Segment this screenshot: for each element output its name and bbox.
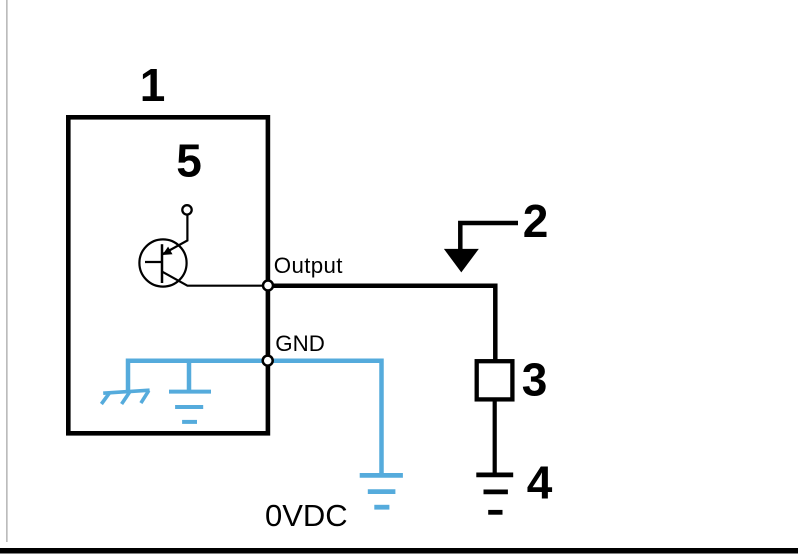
svg-text:5: 5: [176, 135, 202, 187]
svg-text:GND: GND: [275, 331, 325, 356]
svg-text:Output: Output: [274, 253, 343, 278]
svg-text:1: 1: [140, 59, 166, 111]
svg-text:2: 2: [523, 195, 549, 247]
svg-text:4: 4: [527, 457, 553, 509]
svg-text:0VDC: 0VDC: [265, 498, 348, 533]
svg-text:3: 3: [522, 354, 548, 406]
